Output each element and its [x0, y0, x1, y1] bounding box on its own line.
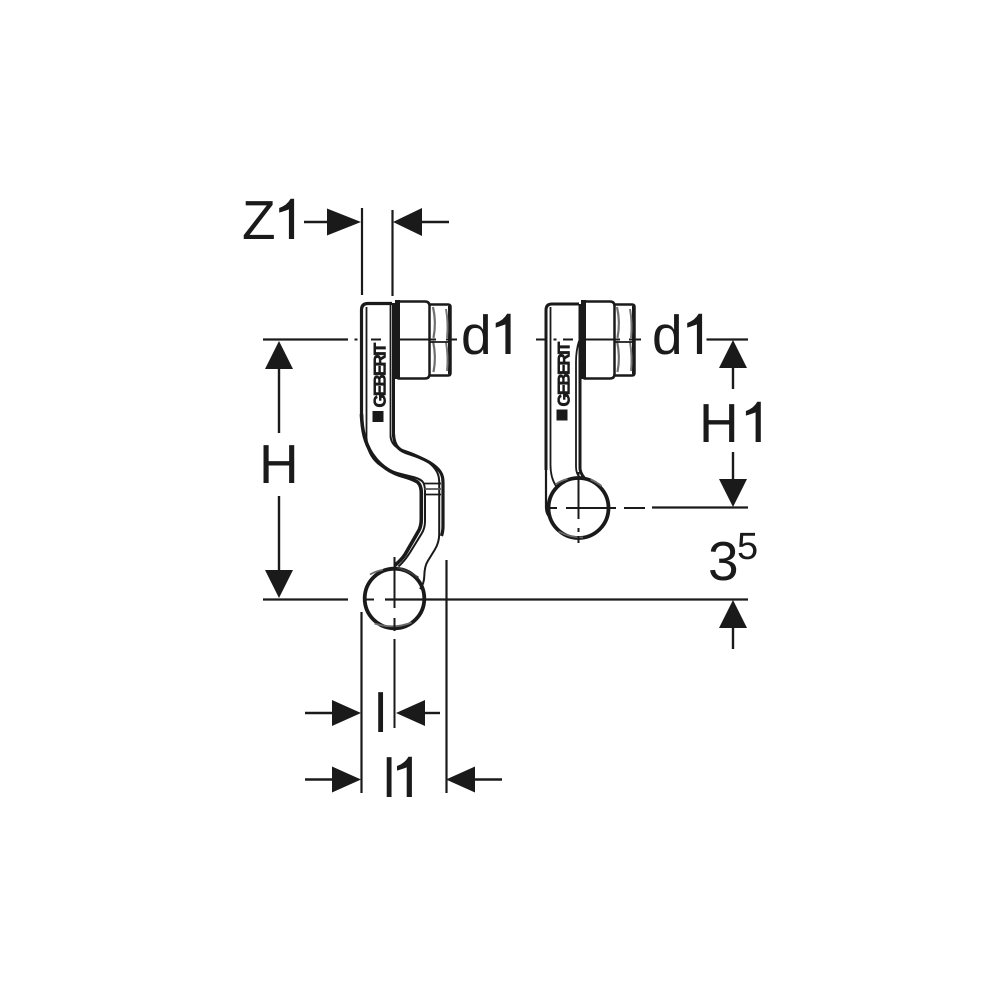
- label Z1: [242, 189, 294, 251]
- left fitting S-bend inner elbow: [362, 414, 426, 567]
- left fitting nut centerline: [396, 339, 457, 341]
- left fitting press rings: [425, 484, 442, 495]
- dimension H up arrow: [265, 341, 293, 433]
- right fitting ball highlight: [556, 479, 568, 485]
- dimension H1 down arrow: [719, 452, 747, 507]
- left fitting S-bend outer shoulder: [391, 434, 444, 589]
- right fitting nut centerline: [582, 339, 641, 341]
- svg-text:H: H: [259, 433, 299, 495]
- left fitting centerline: [355, 339, 382, 341]
- Z1 extension line right: [391, 210, 393, 296]
- dimension 35 up arrow: [719, 600, 747, 649]
- svg-text:3: 3: [708, 530, 739, 592]
- dimension H down arrow: [265, 496, 293, 598]
- right ball vertical centerline: [578, 472, 580, 543]
- dimension H1 up arrow: [719, 340, 747, 389]
- label 3 superscript 5: [708, 526, 758, 592]
- left fitting ball highlight: [370, 570, 383, 575]
- svg-text:5: 5: [737, 526, 758, 568]
- svg-text:d: d: [461, 304, 492, 366]
- left fitting press collar: [398, 300, 430, 379]
- right fitting hex nut: [615, 305, 635, 376]
- right fitting press collar: [584, 300, 615, 379]
- right fitting ball socket: [549, 478, 609, 538]
- dimension l right arrow: [396, 700, 440, 726]
- bottom extension line left: [360, 612, 362, 793]
- right fitting GEBERIT logo square: [557, 410, 568, 421]
- svg-text:l: l: [383, 747, 395, 809]
- right fitting centerline: [536, 339, 573, 341]
- dimension H bottom line: [263, 598, 348, 600]
- right fitting sleeve body: [546, 304, 584, 517]
- dimension H1 bottom line: [652, 506, 748, 508]
- bottom extension line right: [445, 560, 447, 793]
- svg-text:GEBERIT: GEBERIT: [555, 341, 574, 406]
- left fitting sleeve: [362, 303, 394, 440]
- left ball vertical centerline: [394, 557, 396, 728]
- right ball horizontal centerline: [549, 507, 645, 509]
- dimension H1 top tick: [707, 338, 749, 340]
- dimension l1 left arrow: [305, 767, 361, 793]
- svg-text:Z: Z: [242, 189, 276, 251]
- dimension Z1 right arrow: [393, 208, 449, 236]
- left fitting ball socket: [365, 569, 425, 629]
- Z1 extension line left: [361, 208, 363, 295]
- bottom long centerline: [385, 598, 748, 600]
- dimension Z1 left arrow: [304, 209, 361, 236]
- dimension l1 right arrow: [446, 767, 502, 793]
- left ball horizontal centerline dashes: [366, 599, 374, 601]
- dimension H top line: [263, 338, 348, 340]
- left fitting GEBERIT logo square: [373, 411, 384, 422]
- svg-text:GEBERIT: GEBERIT: [371, 342, 390, 407]
- svg-text:l: l: [375, 682, 387, 744]
- svg-text:d: d: [652, 304, 683, 366]
- left fitting hex nut: [430, 305, 451, 376]
- svg-text:H: H: [699, 392, 739, 454]
- dimension l left arrow: [305, 700, 361, 726]
